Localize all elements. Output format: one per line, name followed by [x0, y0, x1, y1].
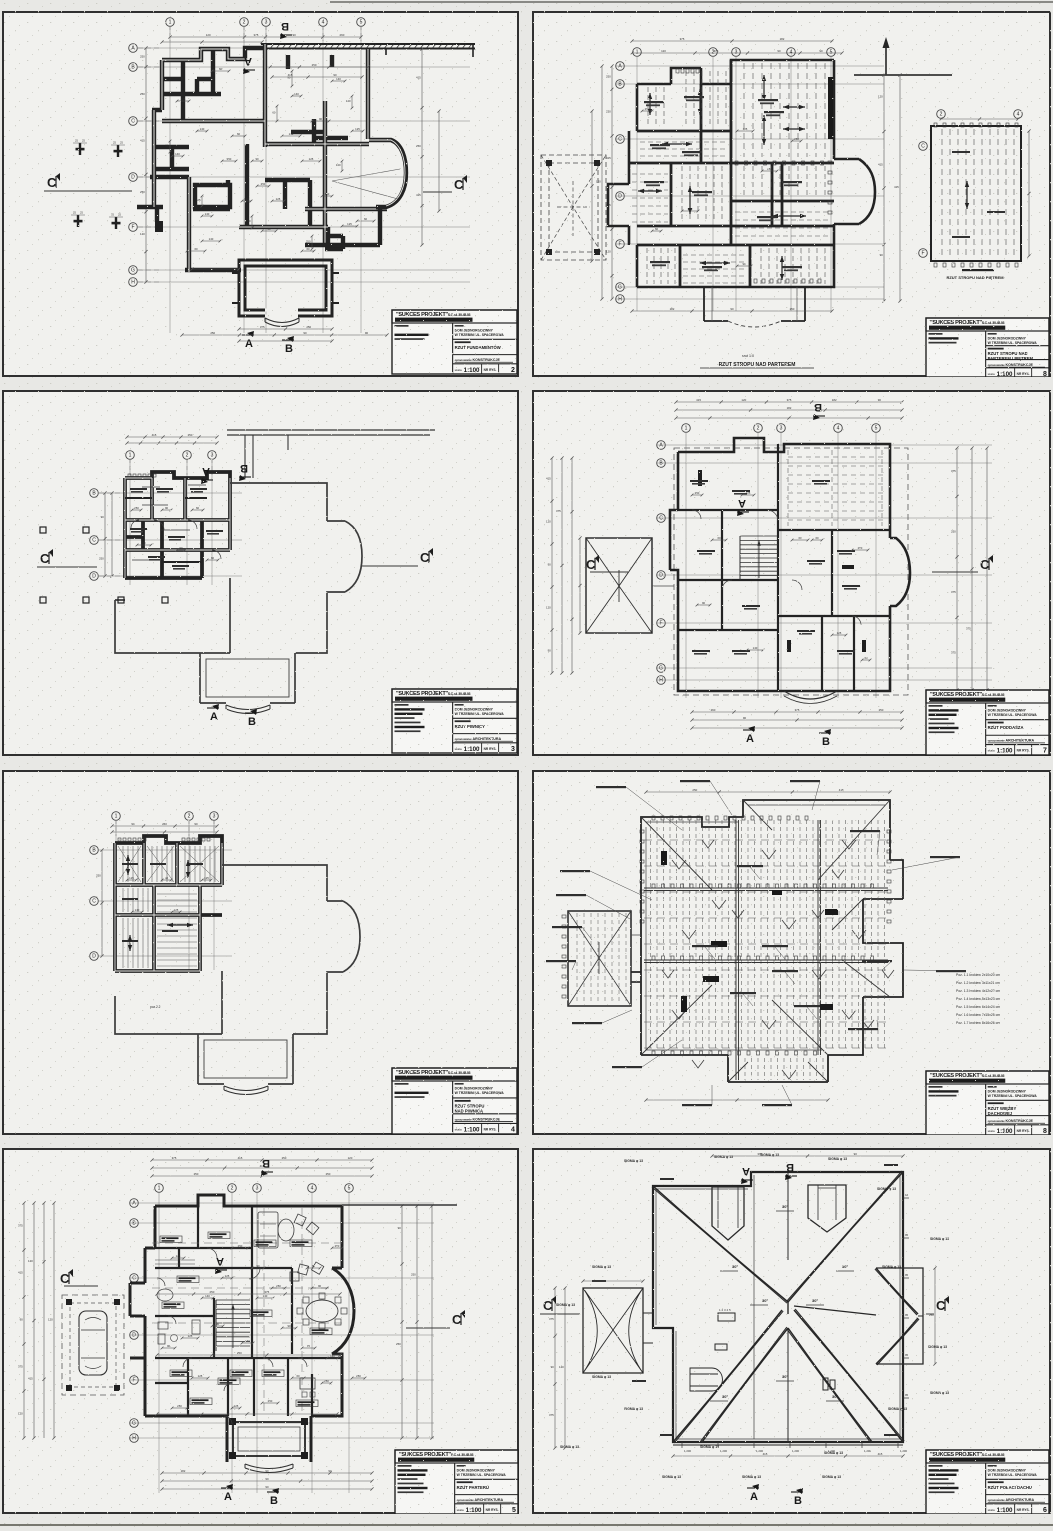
svg-text:W TRZEBINI UL. SPACEROWA: W TRZEBINI UL. SPACEROWA: [988, 1473, 1038, 1477]
svg-text:90: 90: [319, 117, 323, 121]
svg-text:D: D: [131, 175, 135, 181]
porch steps: [226, 705, 270, 710]
svg-text:A: A: [746, 733, 754, 745]
svg-text:3: 3: [211, 453, 214, 459]
svg-text:375: 375: [787, 398, 792, 402]
svg-text:60: 60: [364, 217, 368, 221]
svg-text:1: 1: [129, 453, 132, 459]
svg-text:60: 60: [267, 227, 271, 231]
svg-text:140: 140: [245, 1339, 250, 1343]
svg-text:90: 90: [216, 1322, 220, 1326]
svg-text:125: 125: [181, 97, 186, 101]
svg-text:3: 3: [213, 814, 216, 820]
svg-text:375: 375: [260, 325, 265, 329]
svg-text:120: 120: [596, 180, 601, 184]
svg-text:8: 8: [1043, 1128, 1047, 1135]
svg-text:140: 140: [263, 1294, 268, 1298]
svg-text:C: C: [921, 144, 925, 150]
svg-text:415: 415: [140, 139, 145, 143]
title block: [395, 1450, 518, 1514]
svg-text:5: 5: [348, 1186, 351, 1192]
svg-text:30°: 30°: [722, 1394, 728, 1399]
svg-text:120: 120: [606, 249, 611, 253]
svg-text:2: 2: [712, 50, 715, 56]
svg-text:1:100: 1:100: [997, 1128, 1013, 1135]
svg-text:250: 250: [210, 331, 215, 335]
svg-text:B: B: [270, 1495, 278, 1507]
svg-text:250: 250: [695, 491, 700, 495]
svg-text:G: G: [132, 1421, 136, 1427]
svg-text:opracowanie ARCHITEKTURA: opracowanie ARCHITEKTURA: [457, 1498, 504, 1502]
roof outline: [653, 1172, 903, 1442]
svg-text:95: 95: [905, 1273, 909, 1277]
svg-text:6: 6: [1043, 1507, 1047, 1514]
svg-text:opracowanie KONSTRUKCJE: opracowanie KONSTRUKCJE: [455, 1117, 501, 1121]
svg-text:250: 250: [688, 207, 693, 211]
svg-text:G: G: [659, 666, 663, 672]
svg-text:SIGMA φ 13: SIGMA φ 13: [928, 1345, 947, 1349]
svg-text:120: 120: [661, 49, 666, 53]
svg-text:60: 60: [798, 536, 802, 540]
svg-text:NR RYS.: NR RYS.: [1017, 372, 1030, 376]
svg-text:8: 8: [1043, 371, 1047, 377]
svg-text:D: D: [92, 574, 96, 580]
svg-text:30°: 30°: [782, 1374, 788, 1379]
svg-text:SIGMA φ 13: SIGMA φ 13: [592, 1375, 611, 1379]
svg-text:140: 140: [289, 132, 294, 136]
svg-text:D: D: [92, 954, 96, 960]
panel 5: ceiling over basement: [2, 770, 519, 1135]
svg-text:3: 3: [511, 746, 515, 753]
svg-text:415: 415: [878, 1452, 883, 1456]
svg-text:60: 60: [194, 247, 198, 251]
svg-text:1:100: 1:100: [997, 1507, 1013, 1514]
svg-text:60: 60: [211, 556, 215, 560]
svg-text:4: 4: [511, 1126, 515, 1133]
svg-text:250: 250: [356, 1374, 361, 1378]
svg-text:NR RYS.: NR RYS.: [484, 1127, 497, 1131]
attic walls: [670, 438, 890, 691]
svg-text:B: B: [248, 716, 256, 728]
svg-text:250: 250: [96, 874, 101, 878]
svg-text:4: 4: [311, 1186, 314, 1192]
svg-text:90: 90: [165, 144, 169, 148]
svg-text:250: 250: [324, 1379, 329, 1383]
side roof extension: [876, 1268, 923, 1364]
svg-text:60: 60: [717, 536, 721, 540]
svg-text:SIGMA φ 13: SIGMA φ 13: [624, 1407, 643, 1411]
svg-text:H: H: [132, 1436, 136, 1442]
svg-text:250: 250: [177, 1404, 182, 1408]
svg-text:W TRZEBINI UL. SPACEROWA: W TRZEBINI UL. SPACEROWA: [455, 712, 505, 716]
svg-text:140: 140: [135, 908, 140, 912]
svg-text:250: 250: [790, 307, 795, 311]
svg-text:3: 3: [265, 20, 268, 26]
svg-text:120: 120: [741, 398, 746, 402]
svg-text:60: 60: [312, 1264, 316, 1268]
svg-text:182: 182: [181, 1469, 186, 1473]
boundary fence wall: [261, 44, 475, 49]
svg-text:140: 140: [244, 197, 249, 201]
svg-text:W TRZEBINI UL. SPACEROWA: W TRZEBINI UL. SPACEROWA: [988, 341, 1038, 345]
title block: [926, 1450, 1049, 1514]
gazebo roof framing: [568, 911, 631, 1006]
svg-text:140: 140: [330, 1354, 335, 1358]
svg-text:skala: skala: [988, 1508, 995, 1512]
svg-text:60: 60: [237, 132, 241, 136]
svg-text:Poz. 1.1 krokiew 2x10x20 cm: Poz. 1.1 krokiew 2x10x20 cm: [956, 973, 1000, 977]
svg-text:W TRZEBINI UL. SPACEROWA: W TRZEBINI UL. SPACEROWA: [988, 1094, 1038, 1098]
svg-text:250: 250: [209, 1290, 214, 1294]
svg-text:90: 90: [167, 1344, 171, 1348]
svg-text:60: 60: [815, 536, 819, 540]
svg-text:DOM JEDNORODZINNY: DOM JEDNORODZINNY: [988, 709, 1027, 713]
svg-text:60: 60: [196, 506, 200, 510]
svg-text:250: 250: [276, 1284, 281, 1288]
porch steps: [265, 318, 299, 323]
svg-text:95: 95: [905, 1193, 909, 1197]
svg-text:A: A: [750, 1491, 758, 1503]
svg-text:1,200: 1,200: [684, 1449, 691, 1453]
svg-text:415: 415: [894, 185, 899, 189]
north arrow: [885, 43, 887, 75]
svg-text:250: 250: [312, 63, 317, 67]
svg-text:D: D: [132, 1333, 136, 1339]
svg-text:250: 250: [268, 1399, 273, 1403]
svg-text:250: 250: [194, 1172, 199, 1176]
svg-text:125: 125: [837, 631, 842, 635]
svg-text:250: 250: [416, 144, 421, 148]
svg-text:95: 95: [905, 1233, 909, 1237]
svg-text:250: 250: [645, 107, 650, 111]
svg-text:skala: skala: [988, 1129, 995, 1133]
svg-text:120: 120: [206, 33, 211, 37]
svg-text:60: 60: [142, 541, 146, 545]
svg-text:415: 415: [416, 193, 421, 197]
svg-text:H: H: [131, 280, 135, 286]
svg-text:30°: 30°: [812, 1298, 818, 1303]
title block: [926, 1071, 1049, 1135]
svg-text:PARTEREM I PIĘTREM: PARTEREM I PIĘTREM: [988, 356, 1034, 361]
svg-text:140: 140: [325, 192, 330, 196]
svg-text:30°: 30°: [782, 1204, 788, 1209]
svg-text:375: 375: [951, 651, 956, 655]
svg-text:Poz. 1.3 krokiew 4x12x22 cm: Poz. 1.3 krokiew 4x12x22 cm: [956, 989, 1000, 993]
svg-text:250: 250: [951, 530, 956, 534]
svg-text:415: 415: [606, 156, 611, 160]
svg-text:415: 415: [238, 1156, 243, 1160]
svg-text:DOM JEDNORODZINNY: DOM JEDNORODZINNY: [457, 1469, 496, 1473]
svg-text:140: 140: [205, 1294, 210, 1298]
svg-text:125: 125: [196, 198, 201, 202]
svg-text:90: 90: [333, 73, 337, 77]
svg-text:375: 375: [795, 708, 800, 712]
svg-text:RZUT PIWNICY: RZUT PIWNICY: [455, 724, 485, 729]
svg-text:SIGMA φ 13: SIGMA φ 13: [930, 1237, 949, 1241]
svg-text:415: 415: [878, 162, 883, 166]
svg-text:120: 120: [48, 1318, 53, 1322]
svg-text:7: 7: [1043, 748, 1047, 755]
svg-text:DOM JEDNORODZINNY: DOM JEDNORODZINNY: [988, 1469, 1027, 1473]
svg-text:SIGMA φ 13: SIGMA φ 13: [556, 1303, 575, 1307]
panel 3: basement plan: [2, 390, 519, 756]
svg-text:95: 95: [905, 1353, 909, 1357]
svg-text:90: 90: [165, 506, 169, 510]
svg-text:NR RYS.: NR RYS.: [1017, 1508, 1030, 1512]
svg-text:C: C: [92, 899, 96, 905]
svg-text:90: 90: [398, 1226, 402, 1230]
svg-text:NR RYS.: NR RYS.: [484, 747, 497, 751]
svg-text:250: 250: [326, 1172, 331, 1176]
svg-text:90: 90: [743, 716, 747, 720]
svg-text:250: 250: [237, 1351, 242, 1355]
svg-text:A: A: [244, 55, 252, 67]
svg-text:95: 95: [905, 1393, 909, 1397]
title block: [926, 690, 1049, 755]
svg-text:C: C: [132, 1276, 136, 1282]
svg-text:2: 2: [940, 112, 943, 118]
svg-text:250: 250: [140, 92, 145, 96]
panel 7: ground floor plan: [2, 1148, 519, 1514]
garage hip roof: [586, 538, 652, 633]
footing piers: [79, 143, 81, 155]
svg-text:120: 120: [559, 1365, 564, 1369]
svg-text:90: 90: [20, 1318, 24, 1322]
svg-text:30°: 30°: [762, 1298, 768, 1303]
svg-text:W TRZEBINI UL. SPACEROWA: W TRZEBINI UL. SPACEROWA: [457, 1473, 507, 1477]
svg-text:125: 125: [309, 157, 314, 161]
svg-text:90: 90: [255, 157, 259, 161]
svg-text:90: 90: [854, 1152, 858, 1156]
svg-text:1,200: 1,200: [720, 1449, 727, 1453]
svg-text:DACHOWEJ: DACHOWEJ: [988, 1111, 1013, 1116]
svg-text:90: 90: [880, 253, 884, 257]
svg-text:250: 250: [140, 54, 145, 58]
svg-text:RZUT STROPU NAD PIĘTREM: RZUT STROPU NAD PIĘTREM: [946, 275, 1004, 280]
svg-text:250: 250: [140, 190, 145, 194]
svg-text:B: B: [794, 1495, 802, 1507]
svg-text:140: 140: [246, 219, 251, 223]
svg-text:D: D: [618, 194, 622, 200]
svg-text:415: 415: [839, 788, 844, 792]
svg-text:G: G: [618, 285, 622, 291]
svg-text:125: 125: [188, 1334, 193, 1338]
svg-text:1:100: 1:100: [464, 746, 480, 753]
svg-text:182: 182: [780, 37, 785, 41]
svg-text:F: F: [921, 251, 924, 257]
svg-text:skala: skala: [988, 749, 995, 753]
svg-text:1:100: 1:100: [997, 748, 1013, 755]
svg-text:A: A: [224, 1491, 232, 1503]
svg-text:125: 125: [746, 491, 751, 495]
svg-text:opracowanie KONSTRUKCJE: opracowanie KONSTRUKCJE: [988, 1119, 1034, 1123]
svg-text:415: 415: [416, 75, 421, 79]
svg-text:5: 5: [830, 50, 833, 56]
svg-text:125: 125: [347, 222, 352, 226]
svg-text:250: 250: [227, 157, 232, 161]
svg-text:1:100: 1:100: [466, 1507, 482, 1514]
svg-text:60: 60: [272, 111, 276, 115]
svg-text:125: 125: [198, 1374, 203, 1378]
svg-text:1:100: 1:100: [464, 1126, 480, 1133]
svg-text:SIGMA φ 13: SIGMA φ 13: [888, 1407, 907, 1411]
svg-text:250: 250: [134, 506, 139, 510]
svg-text:A: A: [210, 711, 218, 723]
svg-text:30°: 30°: [842, 1264, 848, 1269]
svg-text:C: C: [131, 119, 135, 125]
svg-text:120: 120: [140, 232, 145, 236]
scan edge line bottom: [0, 1524, 1053, 1526]
svg-text:2: 2: [243, 20, 246, 26]
svg-text:RZUT PARTERU: RZUT PARTERU: [457, 1485, 489, 1490]
svg-text:1: 1: [636, 50, 639, 56]
svg-text:30°: 30°: [832, 1394, 838, 1399]
svg-text:250: 250: [606, 110, 611, 114]
svg-text:250: 250: [606, 75, 611, 79]
svg-text:260: 260: [162, 822, 167, 826]
svg-text:90: 90: [777, 49, 781, 53]
svg-text:415: 415: [546, 477, 551, 481]
svg-text:375: 375: [18, 1365, 23, 1369]
svg-text:B: B: [822, 736, 830, 748]
svg-text:opracowanie ARCHITEKTURA: opracowanie ARCHITEKTURA: [988, 1498, 1035, 1502]
svg-text:250: 250: [238, 1244, 243, 1248]
svg-text:90: 90: [287, 1324, 291, 1328]
svg-text:C: C: [618, 137, 622, 143]
svg-text:250: 250: [794, 137, 799, 141]
svg-text:260: 260: [711, 708, 716, 712]
svg-text:90: 90: [179, 546, 183, 550]
svg-text:90: 90: [303, 331, 307, 335]
svg-text:W TRZEBINI UL. SPACEROWA: W TRZEBINI UL. SPACEROWA: [988, 713, 1038, 717]
scan edge line top: [330, 1, 1053, 3]
svg-text:H: H: [618, 297, 622, 303]
svg-text:B: B: [814, 401, 822, 413]
svg-text:120: 120: [18, 1412, 23, 1416]
svg-text:90: 90: [265, 1477, 269, 1481]
svg-text:1: 1: [115, 814, 118, 820]
svg-text:DOM JEDNORODZINNY: DOM JEDNORODZINNY: [988, 337, 1027, 341]
svg-text:SIGMA φ 13: SIGMA φ 13: [624, 1159, 643, 1163]
svg-text:1,200: 1,200: [792, 1449, 799, 1453]
svg-text:B: B: [786, 1161, 794, 1173]
svg-text:250: 250: [396, 1342, 401, 1346]
svg-text:125: 125: [176, 1254, 181, 1258]
svg-text:90: 90: [365, 331, 369, 335]
svg-text:375: 375: [549, 1413, 554, 1417]
panel 4: attic plan: [532, 390, 1051, 756]
svg-text:415: 415: [696, 398, 701, 402]
svg-text:415: 415: [28, 1376, 33, 1380]
panel 2: ceiling over ground floor: [532, 11, 1051, 377]
porch with columns: [233, 1422, 305, 1456]
svg-text:F: F: [659, 621, 662, 627]
svg-text:250: 250: [411, 1273, 416, 1277]
svg-text:125: 125: [174, 908, 179, 912]
svg-text:rzut 1:0: rzut 1:0: [742, 354, 754, 358]
svg-text:375: 375: [254, 33, 259, 37]
svg-text:90: 90: [548, 563, 552, 567]
svg-text:B: B: [262, 1157, 270, 1169]
ground floor outline: [115, 483, 362, 703]
svg-text:60: 60: [306, 247, 310, 251]
title block: [392, 310, 517, 374]
svg-text:120: 120: [878, 95, 883, 99]
svg-text:90: 90: [548, 649, 552, 653]
svg-text:1 2 3 4 5: 1 2 3 4 5: [719, 1308, 731, 1312]
svg-text:RZUT PODDASZA: RZUT PODDASZA: [988, 725, 1024, 730]
svg-text:90: 90: [293, 33, 297, 37]
ceiling plan walls: [608, 60, 834, 287]
svg-text:DOM JEDNORODZINNY: DOM JEDNORODZINNY: [455, 329, 494, 333]
rafters: [651, 820, 885, 1050]
svg-text:1,200: 1,200: [828, 1449, 835, 1453]
svg-text:250: 250: [879, 708, 884, 712]
svg-text:5: 5: [360, 20, 363, 26]
svg-text:375: 375: [951, 590, 956, 594]
svg-text:1:100: 1:100: [464, 367, 480, 374]
svg-text:125: 125: [234, 1404, 239, 1408]
svg-text:120: 120: [546, 606, 551, 610]
svg-text:90: 90: [819, 49, 823, 53]
svg-text:Poz. 1.5 krokiew 6x14x24 cm: Poz. 1.5 krokiew 6x14x24 cm: [956, 1005, 1000, 1009]
svg-text:D: D: [659, 573, 663, 579]
svg-text:A: A: [742, 1165, 750, 1177]
svg-text:140: 140: [175, 152, 180, 156]
svg-text:250: 250: [692, 788, 697, 792]
dormers: [712, 1187, 744, 1240]
svg-text:opracowanie ARCHITEKTURA: opracowanie ARCHITEKTURA: [455, 737, 502, 741]
svg-text:250: 250: [261, 182, 266, 186]
svg-text:375: 375: [556, 509, 561, 513]
svg-text:Poz. 1.6 krokiew 7x15x25 cm: Poz. 1.6 krokiew 7x15x25 cm: [956, 1013, 1000, 1017]
svg-text:DOM JEDNORODZINNY: DOM JEDNORODZINNY: [988, 1090, 1027, 1094]
svg-text:120: 120: [28, 1259, 33, 1263]
svg-text:3: 3: [780, 426, 783, 432]
svg-text:140: 140: [205, 212, 210, 216]
svg-text:60: 60: [219, 67, 223, 71]
svg-text:90: 90: [730, 307, 734, 311]
svg-text:A: A: [738, 497, 746, 509]
svg-text:NR RYS.: NR RYS.: [484, 368, 497, 372]
svg-text:125: 125: [129, 876, 134, 880]
svg-text:140: 140: [336, 163, 341, 167]
svg-text:120: 120: [348, 1156, 353, 1160]
basement walls: [125, 472, 230, 578]
title block: [392, 689, 517, 753]
svg-text:A: A: [245, 338, 253, 350]
svg-text:5: 5: [875, 426, 878, 432]
svg-text:90: 90: [878, 398, 882, 402]
svg-text:SIGMA φ 13: SIGMA φ 13: [714, 1155, 733, 1159]
svg-text:60: 60: [165, 876, 169, 880]
svg-text:2: 2: [757, 426, 760, 432]
svg-text:B: B: [281, 20, 289, 32]
svg-text:250: 250: [306, 240, 311, 244]
svg-text:90: 90: [256, 1264, 260, 1268]
svg-text:375: 375: [757, 1152, 762, 1156]
svg-text:A: A: [202, 465, 210, 477]
svg-text:G: G: [131, 268, 135, 274]
svg-text:140: 140: [200, 127, 205, 131]
svg-text:1:100: 1:100: [997, 371, 1013, 377]
svg-text:opracowanie ARCHITEKTURA: opracowanie ARCHITEKTURA: [988, 739, 1035, 743]
svg-text:F: F: [618, 242, 621, 248]
svg-text:415: 415: [18, 1271, 23, 1275]
svg-text:1: 1: [169, 20, 172, 26]
ground floor walls: [130, 1195, 342, 1358]
svg-text:375: 375: [680, 37, 685, 41]
